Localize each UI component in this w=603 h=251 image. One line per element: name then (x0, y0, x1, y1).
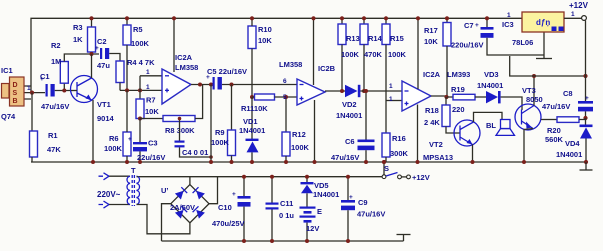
svg-text:S: S (384, 164, 389, 173)
svg-text:12V: 12V (306, 224, 319, 233)
resistor R18 2.4K (424, 97, 460, 133)
svg-text:+12V: +12V (412, 173, 430, 182)
svg-text:+: + (349, 194, 353, 201)
svg-text:100K: 100K (131, 39, 150, 48)
node junction 364,18.3 (362, 16, 366, 20)
node junction 179.5,118.5 (178, 117, 182, 121)
node R3 C2 collector junction (90, 52, 94, 56)
svg-text:VT2: VT2 (429, 140, 443, 149)
svg-text:C7: C7 (464, 21, 474, 30)
node junction 272,241 (270, 239, 274, 243)
svg-text:U’: U’ (161, 186, 169, 195)
wire bridge negative to bottom rail (162, 204, 171, 241)
svg-text:LM393: LM393 (447, 70, 470, 79)
svg-text:+: + (95, 45, 99, 52)
svg-text:47u: 47u (97, 61, 110, 70)
svg-text:R20: R20 (547, 126, 561, 135)
resistor R15 100K (382, 18, 407, 100)
node junction 211,84.5 (209, 83, 213, 87)
svg-text:R5: R5 (133, 25, 143, 34)
capacitor C8 47u/16V (542, 76, 593, 118)
svg-text:R3: R3 (73, 23, 83, 32)
node junction 342,18.3 (340, 16, 344, 20)
svg-text:47u/16V: 47u/16V (357, 210, 385, 219)
wire C1 to VT1 base (55, 90, 71, 92)
transformer T 220V mains (97, 166, 140, 208)
svg-text:1: 1 (389, 83, 393, 90)
svg-text:100K: 100K (211, 138, 230, 147)
capacitor C3 22u/16V (128, 119, 165, 163)
capacitor C2 47u (95, 37, 120, 70)
svg-text:LM358: LM358 (175, 63, 198, 72)
node junction 384,162 (382, 160, 386, 164)
svg-text:VT3: VT3 (522, 86, 536, 95)
wire secondary top to rail (137, 176, 139, 178)
wire IC1 output to C1 node (24, 86, 45, 99)
svg-text:LM358: LM358 (279, 60, 302, 69)
node junction 93,162 (91, 160, 95, 164)
ground at mid rail end (580, 162, 593, 170)
resistor R2 1M (51, 41, 99, 91)
svg-text:6: 6 (283, 78, 287, 85)
svg-text:R18: R18 (425, 106, 439, 115)
svg-text:1: 1 (507, 12, 511, 19)
node junction 244,176.7 (242, 175, 246, 179)
svg-text:470u/25V: 470u/25V (212, 219, 245, 228)
svg-text:47u/16V: 47u/16V (41, 102, 69, 111)
svg-text:S: S (13, 90, 18, 97)
wire IC2A output row (191, 84, 212, 86)
svg-text:2 4K: 2 4K (424, 118, 440, 127)
resistor R10 10K (248, 18, 272, 97)
svg-text:C8: C8 (563, 89, 573, 98)
IC1 receiver module Q74 (1, 66, 31, 121)
wire +12V column to C8 (585, 21, 587, 77)
node junction 472.5,162 (471, 160, 475, 164)
node junction 586,162 (584, 160, 588, 164)
svg-text:1M: 1M (51, 57, 61, 66)
wire IC3 out to +12V terminal (564, 17, 582, 19)
node junction 314.5,162 (313, 160, 317, 164)
svg-text:C4 0 01: C4 0 01 (182, 148, 208, 157)
resistor R9 100K (211, 85, 236, 163)
node junction 252,97 (250, 95, 254, 99)
svg-text:1: 1 (146, 69, 150, 76)
comparator IC4A LM393 (389, 18, 470, 162)
diode VD1 1N4001 (239, 97, 265, 162)
svg-text:VD5: VD5 (314, 181, 329, 190)
svg-text:R14: R14 (368, 34, 383, 43)
svg-text:1: 1 (27, 85, 31, 92)
node junction 342,91 (340, 89, 344, 93)
resistor R5 100K (123, 18, 150, 90)
capacitor C7 220u/16V (451, 18, 544, 55)
svg-text:1: 1 (389, 96, 393, 103)
switch S to +12V (382, 162, 430, 182)
svg-text:dƒņ: dƒņ (536, 18, 550, 27)
wire top +12V supply rail (31, 18, 522, 92)
svg-text:1N4001: 1N4001 (477, 81, 503, 90)
svg-text:1N4001: 1N4001 (336, 111, 362, 120)
resistor R17 10K (424, 18, 451, 97)
svg-text:10K: 10K (258, 36, 272, 45)
svg-text:78L06: 78L06 (512, 38, 533, 47)
svg-text:+12V: +12V (569, 1, 589, 10)
svg-text:Q74: Q74 (1, 112, 16, 121)
op-amp IC2B LM358 (279, 18, 336, 105)
node junction 585.5,118 (583, 116, 587, 120)
bridge rectifier U' 2A/50V (161, 177, 209, 223)
ground terminal bottom right (397, 235, 411, 242)
svg-text:+: + (585, 95, 589, 102)
svg-text:IC3: IC3 (502, 20, 514, 29)
capacitor C4 0.01 (175, 119, 212, 158)
svg-text:R2: R2 (51, 41, 61, 50)
diode VD3 1N4001 (477, 70, 522, 110)
resistor R8 300K (140, 85, 203, 136)
capacitor C11 0.1u (266, 177, 295, 241)
node junction 272,176.7 (270, 175, 274, 179)
node junction 127,90.4 (125, 88, 129, 92)
svg-text:470K: 470K (364, 50, 383, 59)
svg-text:C2: C2 (97, 37, 107, 46)
svg-text:VD2: VD2 (342, 100, 357, 109)
node junction 386,18.3 (384, 16, 388, 20)
resistor R1 47K (30, 93, 62, 162)
svg-text:R9: R9 (215, 128, 225, 137)
svg-text:C10: C10 (218, 203, 232, 212)
wire +12V distribution row (510, 56, 586, 76)
svg-text:R16: R16 (392, 134, 406, 143)
svg-text:220: 220 (452, 105, 465, 114)
node junction 364,91 (362, 89, 366, 93)
resistor R19 220 (447, 85, 486, 114)
svg-text:560K: 560K (545, 135, 564, 144)
node junction 127,162 (125, 160, 129, 164)
node junction 348,241 (346, 239, 350, 243)
node junction 91.5,18.3 (89, 16, 93, 20)
svg-text:1N4001: 1N4001 (239, 126, 265, 135)
svg-text:VT1: VT1 (97, 100, 111, 109)
svg-text:R6: R6 (109, 134, 119, 143)
svg-text:9014: 9014 (97, 114, 115, 123)
svg-text:100K: 100K (104, 144, 123, 153)
node junction 286,97 (284, 95, 288, 99)
svg-text:10K: 10K (424, 37, 438, 46)
svg-text:10K: 10K (145, 107, 159, 116)
node junction 418,18.3 (416, 16, 420, 20)
svg-text:1N4001: 1N4001 (556, 150, 582, 159)
node junction 524,162 (522, 160, 526, 164)
diode VD4 1N4001 (556, 118, 593, 162)
node junction 252,162 (250, 160, 254, 164)
svg-text:1K: 1K (73, 35, 83, 44)
transistor VT1 9014 (71, 54, 115, 162)
node junction 252,18.3 (250, 16, 254, 20)
svg-text:100K: 100K (341, 50, 360, 59)
ground under IC3 (536, 32, 552, 59)
wire IC4A lower input row (386, 100, 402, 102)
wire mid ground rail (31, 161, 586, 163)
svg-text:C6: C6 (345, 137, 355, 146)
svg-text:R15: R15 (390, 34, 404, 43)
wire feedback column to rail (210, 85, 212, 163)
node R7 R8 feedback (138, 117, 142, 121)
resistor R20 560K (541, 117, 586, 144)
node +12V terminal (582, 16, 587, 21)
node junction 140,162 (138, 160, 142, 164)
node junction 446.5,97 (444, 95, 448, 99)
node junction 447,18.3 (445, 16, 449, 20)
node junction 487,18.3 (485, 16, 489, 20)
svg-text:C3: C3 (148, 139, 158, 148)
svg-text:220V~: 220V~ (97, 190, 121, 199)
resistor R12 100K (282, 97, 310, 162)
svg-text:1: 1 (571, 11, 575, 18)
svg-text:1: 1 (146, 84, 150, 91)
diode VD5 1N4001 (301, 177, 340, 207)
wire IC2A lower input row (120, 89, 162, 91)
node junction 200,84.5 (198, 83, 202, 87)
svg-text:IC2A: IC2A (175, 53, 193, 62)
svg-text:+: + (128, 136, 132, 143)
wire IC2A upper input row (140, 75, 162, 77)
svg-text:VD3: VD3 (484, 70, 499, 79)
resistor R14 470K (360, 18, 383, 91)
wire IC2B ground pin (314, 100, 316, 162)
svg-text:+: + (232, 191, 236, 198)
svg-text:C1: C1 (40, 72, 50, 81)
node junction 140,90.4 (138, 88, 142, 92)
node junction 231.5,84.5 (230, 83, 234, 87)
node C1 input junction (30, 91, 34, 95)
svg-text:47u/16V: 47u/16V (542, 102, 570, 111)
svg-text:B: B (13, 98, 18, 105)
wire bottom negative rail (162, 240, 404, 242)
svg-text:IC2A: IC2A (423, 70, 441, 79)
capacitor C5 22u/16V (206, 67, 297, 90)
svg-text:100K: 100K (388, 50, 407, 59)
svg-text:5: 5 (283, 94, 287, 101)
svg-text:BL: BL (486, 121, 496, 130)
op-amp IC2A LM358 (162, 18, 198, 104)
node junction 313.5,18.3 (311, 16, 315, 20)
node junction 417.5,162 (416, 160, 420, 164)
svg-text:C9: C9 (358, 198, 368, 207)
svg-text:R19: R19 (451, 85, 465, 94)
wire IC4A output (431, 96, 447, 97)
svg-text:C11: C11 (280, 199, 293, 208)
diode VD2 1N4001 (336, 85, 402, 120)
node junction 366,162 (364, 160, 368, 164)
svg-text:D: D (13, 82, 18, 89)
node junction 286,162 (284, 160, 288, 164)
svg-text:1N4001: 1N4001 (313, 190, 339, 199)
capacitor C10 470u/25V (212, 177, 251, 241)
svg-text:R1110K: R1110K (241, 104, 268, 113)
wire secondary bottom to bridge (137, 205, 190, 234)
svg-text:2A/50V: 2A/50V (170, 203, 195, 212)
svg-text:R17: R17 (424, 26, 438, 35)
battery E 12V (300, 207, 323, 242)
svg-text:E: E (317, 207, 322, 216)
resistor R16 300K (382, 101, 409, 163)
resistor R4 4.7K (116, 58, 155, 90)
resistor R6 100K (104, 90, 131, 162)
node junction 348,176.7 (346, 175, 350, 179)
node junction 174,18.3 (172, 16, 176, 20)
svg-text:100K: 100K (291, 143, 310, 152)
transistor VT3 8050 (515, 76, 543, 162)
wire power supply positive rail (138, 176, 382, 178)
svg-text:VD4: VD4 (565, 139, 580, 148)
svg-text:47K: 47K (47, 145, 61, 154)
node junction 211,162 (209, 160, 213, 164)
node junction 534,76 (532, 74, 536, 78)
node junction 244,241 (242, 239, 246, 243)
wire IC2B output row (325, 90, 345, 92)
node R2 base junction (62, 89, 66, 93)
svg-text:R1: R1 (48, 131, 58, 140)
resistor R3 1K (73, 18, 96, 54)
node junction 384,162 (382, 160, 386, 164)
node junction 127,18.3 (125, 16, 129, 20)
node junction 307,176.7 (305, 175, 309, 179)
svg-text:300K: 300K (390, 149, 409, 158)
svg-text:IC2B: IC2B (318, 64, 336, 73)
svg-text:47u/16V: 47u/16V (331, 153, 359, 162)
capacitor C9 47u/16V (341, 177, 385, 241)
svg-text:VD1: VD1 (243, 117, 258, 126)
svg-text:8050: 8050 (526, 95, 543, 104)
resistor R11 10K (241, 94, 297, 113)
svg-text:R12: R12 (292, 130, 306, 139)
capacitor C1 47u/16V (40, 72, 69, 111)
svg-text:+: + (475, 22, 479, 29)
node junction 231.5,162 (230, 160, 234, 164)
resistor R7 10K (136, 76, 159, 119)
svg-text:R7: R7 (146, 96, 156, 105)
svg-text:R10: R10 (258, 25, 272, 34)
capacitor C6 47u/16V (331, 91, 375, 162)
node junction 585.5,76 (583, 74, 587, 78)
speaker BL (486, 120, 515, 136)
regulator IC3 78L06 (502, 11, 575, 47)
node junction 211,157 (209, 155, 213, 159)
transistor VT2 MPSA13 (423, 112, 502, 162)
svg-text:220u/16V: 220u/16V (451, 41, 484, 50)
svg-text:R4 4 7K: R4 4 7K (127, 58, 155, 67)
node junction 307,241 (305, 239, 309, 243)
node junction 366,91 (364, 89, 368, 93)
svg-text:0 1u: 0 1u (279, 211, 294, 220)
svg-text:C5 22u/16V: C5 22u/16V (207, 67, 247, 76)
resistor R13 100K (338, 18, 360, 91)
svg-text:IC1: IC1 (1, 66, 13, 75)
svg-text:R13: R13 (346, 34, 360, 43)
wire bridge positive output (209, 177, 218, 204)
svg-text:T: T (131, 166, 136, 175)
svg-text:MPSA13: MPSA13 (423, 153, 453, 162)
